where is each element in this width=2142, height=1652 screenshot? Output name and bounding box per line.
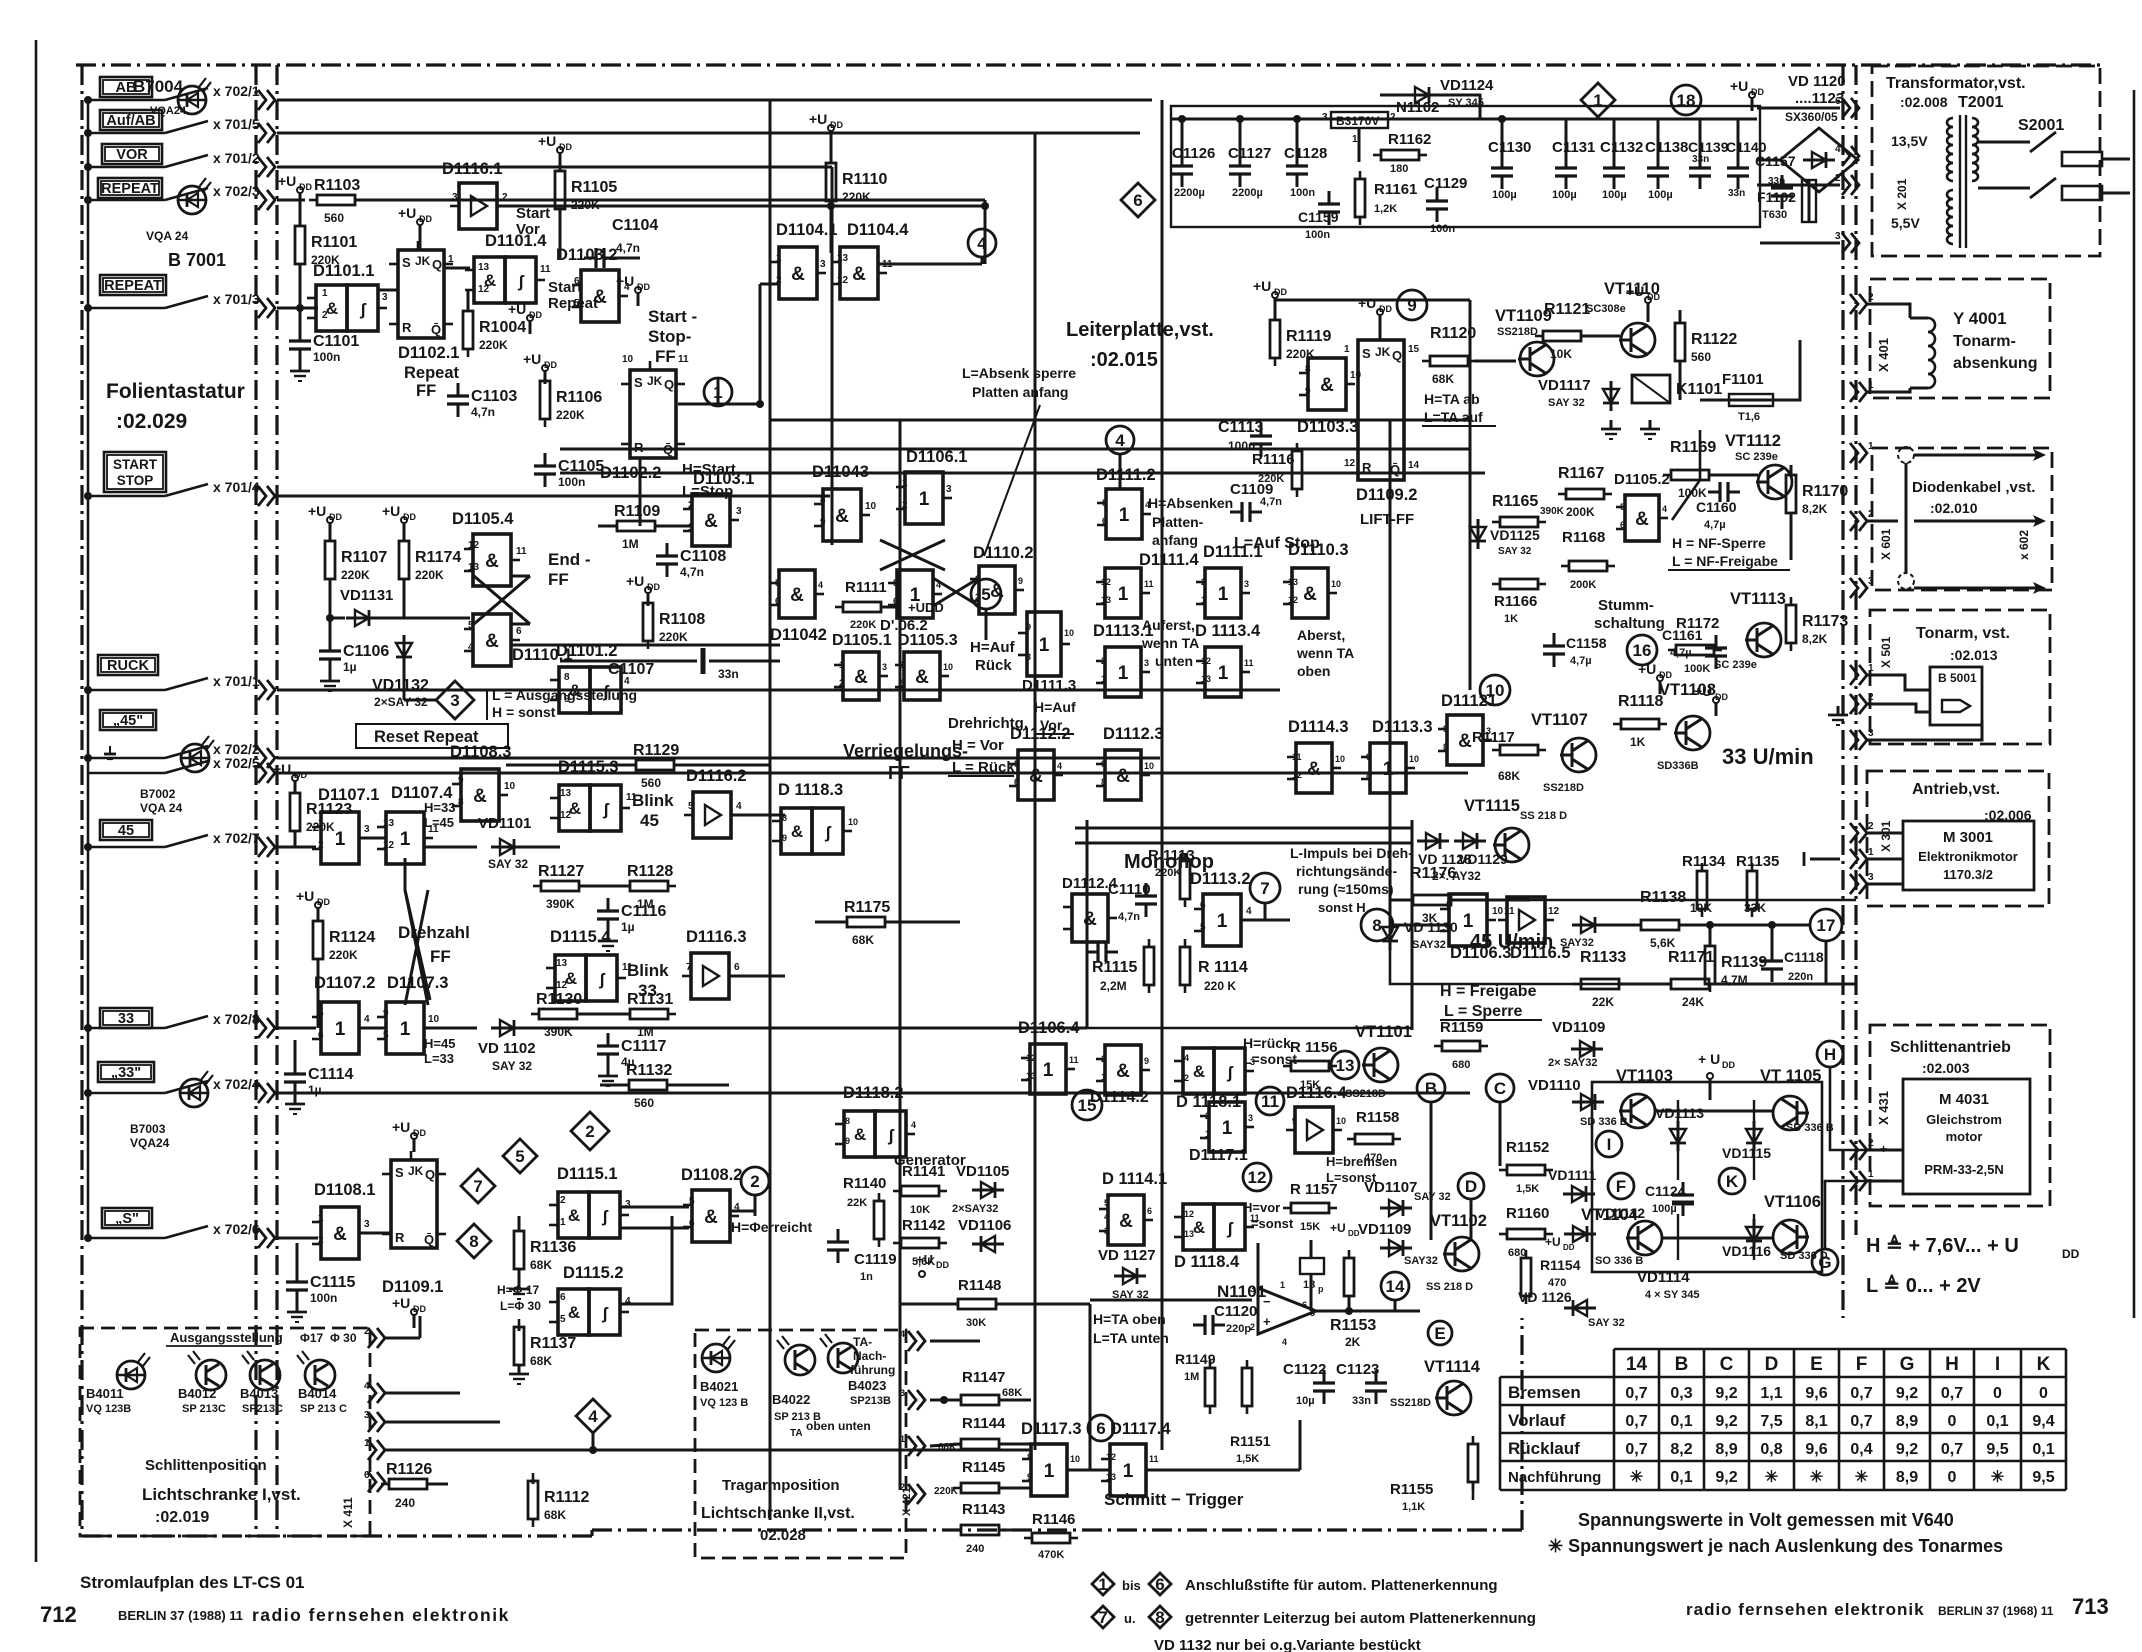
- svg-text:absenkung: absenkung: [1953, 355, 2037, 372]
- bus x702/8: [277, 1027, 316, 1030]
- svg-text:2: 2: [1201, 577, 1206, 587]
- X201 connector pins: [1842, 98, 1850, 118]
- svg-text:E: E: [1434, 1324, 1445, 1343]
- numbered node 12: [1243, 1163, 1271, 1191]
- PSU top rail: [1171, 118, 1757, 121]
- svg-text:1: 1: [318, 818, 324, 829]
- svg-text:1: 1: [322, 288, 328, 299]
- svg-text:F: F: [1616, 1177, 1626, 1196]
- numbered node 11: [1256, 1087, 1284, 1115]
- svg-text:H = sonst: H = sonst: [492, 704, 556, 720]
- svg-text:13: 13: [383, 818, 395, 829]
- svg-text:D1109.1: D1109.1: [382, 1278, 443, 1296]
- svg-text:&: &: [1307, 759, 1321, 780]
- svg-text:SP213C: SP213C: [242, 1403, 283, 1415]
- svg-text:VQA 24: VQA 24: [140, 801, 183, 815]
- svg-text:R1165: R1165: [1492, 493, 1538, 510]
- bus y=843: [1075, 842, 1412, 845]
- svg-text:2: 2: [1868, 292, 1874, 303]
- resistor R1106: [540, 381, 550, 419]
- svg-text:Drehzahl: Drehzahl: [398, 923, 470, 942]
- svg-text:18: 18: [1677, 91, 1696, 110]
- svg-text:200K: 200K: [1566, 505, 1595, 519]
- svg-text:5: 5: [468, 620, 474, 631]
- svg-text:1: 1: [1201, 595, 1206, 605]
- transformer T2001: [1947, 118, 1953, 127]
- svg-text:4: 4: [468, 642, 474, 653]
- wire blink row: [732, 814, 785, 817]
- cross wires D1106.1 to D1106.2: [880, 540, 945, 570]
- svg-text:&: &: [1320, 375, 1334, 396]
- svg-text:R1126: R1126: [386, 1461, 432, 1478]
- svg-text:x 702/5: x 702/5: [213, 755, 260, 771]
- svg-text:FF: FF: [416, 382, 436, 400]
- svg-text:sonst H: sonst H: [1318, 900, 1366, 915]
- vertical bus x=832: [831, 167, 834, 545]
- X601 pins: [1850, 443, 1858, 463]
- resistor R1172: [1676, 645, 1714, 655]
- bus x702/7: [277, 846, 316, 849]
- svg-text:R1111: R1111: [845, 579, 887, 596]
- resistor R1138: [1641, 920, 1679, 930]
- svg-text:220K: 220K: [341, 568, 370, 582]
- svg-text:D1102.1: D1102.1: [398, 344, 459, 362]
- svg-text::02.010: :02.010: [1930, 500, 1978, 516]
- svg-text:9,6: 9,6: [1805, 1441, 1827, 1458]
- svg-text:1170.3/2: 1170.3/2: [1943, 867, 1993, 882]
- svg-text:4: 4: [1246, 906, 1252, 917]
- svg-text:+U: +U: [1253, 278, 1271, 294]
- svg-text:5: 5: [893, 578, 898, 588]
- svg-text:8: 8: [900, 678, 905, 688]
- svg-text:VD1106: VD1106: [958, 1217, 1011, 1234]
- svg-text:+U: +U: [1730, 78, 1748, 94]
- svg-text:R1143: R1143: [962, 1501, 1005, 1518]
- svg-text:B3170V: B3170V: [1336, 114, 1379, 128]
- LED B7002: [181, 744, 209, 772]
- resistor R1143: [961, 1525, 999, 1535]
- svg-text:R1108: R1108: [659, 611, 705, 628]
- svg-text:x 702/7: x 702/7: [213, 830, 260, 846]
- svg-text:x 702/6: x 702/6: [213, 1221, 260, 1237]
- svg-text:+U: +U: [392, 1119, 410, 1135]
- svg-text:4: 4: [1184, 1053, 1189, 1063]
- svg-text:D1112.3: D1112.3: [1103, 725, 1164, 743]
- svg-text:+U: +U: [916, 1252, 933, 1267]
- svg-text:Stop-: Stop-: [648, 327, 691, 346]
- svg-text:6: 6: [364, 1470, 370, 1481]
- svg-text:12: 12: [1184, 1209, 1194, 1219]
- svg-text:führung: führung: [850, 1363, 895, 1377]
- svg-text:DD: DD: [1348, 1229, 1360, 1238]
- svg-text:1: 1: [335, 1019, 346, 1040]
- capacitor C1115: [296, 1269, 299, 1282]
- svg-text:Φ 30: Φ 30: [330, 1331, 357, 1345]
- key button 45: [100, 820, 152, 840]
- svg-text:7: 7: [1098, 1608, 1107, 1627]
- resistor R1111: [843, 602, 881, 612]
- svg-text:Q: Q: [432, 257, 442, 272]
- svg-text:1: 1: [448, 254, 454, 265]
- gate D1104.1: [779, 247, 817, 299]
- svg-text:getrennter Leiterzug bei autom: getrennter Leiterzug bei autom Plattener…: [1185, 1610, 1536, 1627]
- resistor R1122: [1675, 323, 1685, 361]
- svg-text:4,7n: 4,7n: [471, 405, 495, 419]
- gate D1104.4: [840, 247, 878, 299]
- gate2 D1115.3: [559, 785, 590, 831]
- svg-text:B7003: B7003: [130, 1122, 166, 1136]
- svg-text:1: 1: [1217, 911, 1228, 932]
- svg-text:X 431: X 431: [1876, 1091, 1891, 1125]
- svg-text:Schmitt − Trigger: Schmitt − Trigger: [1104, 1490, 1244, 1509]
- svg-text:E: E: [1810, 1354, 1823, 1375]
- resistor R1103: [317, 195, 355, 205]
- capacitor C1139: [1699, 155, 1702, 168]
- svg-text:VD 1132 nur bei o.g.Variante b: VD 1132 nur bei o.g.Variante bestückt: [1154, 1637, 1421, 1652]
- connector pin x 701/1: [258, 680, 266, 700]
- capacitor C1121: [1300, 1258, 1324, 1274]
- gate2 D1115.1: [558, 1192, 589, 1238]
- svg-text:C1118: C1118: [1784, 949, 1824, 965]
- svg-text:DD: DD: [1659, 670, 1672, 680]
- svg-text:7: 7: [686, 962, 692, 973]
- svg-text:S: S: [1362, 346, 1371, 361]
- svg-text:6: 6: [1014, 777, 1019, 787]
- resistor R1129: [636, 760, 674, 770]
- svg-text:VD 1126: VD 1126: [1518, 1289, 1572, 1305]
- connector pin X411/2: [368, 1328, 376, 1348]
- svg-text:K: K: [2037, 1354, 2051, 1375]
- capacitor C1128: [1296, 153, 1299, 166]
- gate D1108.1: [321, 1207, 359, 1259]
- svg-text:1µ: 1µ: [308, 1083, 322, 1097]
- buffer D1116.4: [1295, 1107, 1333, 1153]
- svg-text:13,5V: 13,5V: [1891, 133, 1928, 149]
- resistor R1162: [1381, 150, 1419, 160]
- svg-text:S: S: [402, 255, 411, 270]
- svg-text:R1144: R1144: [962, 1415, 1006, 1432]
- fuse F1101: [1729, 394, 1773, 406]
- capacitor C1101: [299, 328, 302, 341]
- svg-text:Transformator,vst.: Transformator,vst.: [1886, 75, 2026, 92]
- svg-text:12: 12: [556, 980, 568, 991]
- svg-text:Q̄: Q̄: [431, 322, 441, 337]
- svg-text:VD 1120: VD 1120: [1788, 73, 1846, 90]
- svg-text:B4022: B4022: [772, 1392, 810, 1407]
- label Reset Repeat: [356, 724, 508, 748]
- svg-text:390K: 390K: [546, 897, 575, 911]
- svg-text:D1115.3: D1115.3: [558, 758, 619, 776]
- connector pin X421/4: [908, 1331, 916, 1351]
- connector pin X421/1: [908, 1436, 916, 1456]
- svg-text:100µ: 100µ: [1552, 189, 1577, 201]
- svg-text:VT1115: VT1115: [1464, 797, 1520, 815]
- svg-text:33n: 33n: [1352, 1395, 1371, 1407]
- svg-text:R1107: R1107: [341, 549, 387, 566]
- bus x702/1: [277, 99, 1152, 102]
- svg-text:D1104.4: D1104.4: [847, 221, 909, 239]
- svg-text:DD: DD: [413, 1304, 426, 1314]
- resistor R1112: [528, 1481, 538, 1519]
- svg-text:1: 1: [1043, 1060, 1054, 1081]
- svg-text:10µ: 10µ: [1296, 1395, 1315, 1407]
- svg-text:FF: FF: [548, 570, 569, 589]
- switch wire to x 702/4: [88, 1092, 165, 1095]
- svg-text:I: I: [1607, 1135, 1612, 1154]
- gate D1114.1: [1108, 1195, 1144, 1245]
- svg-text:Q: Q: [1392, 348, 1402, 363]
- note diamonds 7 u 8: [1092, 1606, 1114, 1628]
- board border left (dash-dot): [80, 65, 83, 1536]
- board border bottom-left (dash-dot): [82, 1534, 592, 1537]
- svg-text:C1120: C1120: [1214, 1303, 1257, 1320]
- svg-text:+U: +U: [296, 888, 314, 904]
- connector pin x 702/7: [258, 837, 266, 857]
- svg-text:R1130: R1130: [536, 991, 582, 1008]
- svg-text:13: 13: [1101, 595, 1111, 605]
- svg-text:VD1124: VD1124: [1440, 77, 1494, 94]
- svg-text:1: 1: [902, 478, 908, 489]
- svg-text:X 401: X 401: [1876, 338, 1891, 372]
- svg-text:D1107.3: D1107.3: [387, 974, 448, 992]
- svg-text:VOR: VOR: [116, 147, 148, 163]
- svg-text:560: 560: [324, 211, 344, 225]
- wires schmitt: [1068, 1469, 1110, 1472]
- svg-text:D1111.4: D1111.4: [1139, 551, 1199, 569]
- svg-text:3: 3: [1868, 728, 1874, 739]
- svg-text:R: R: [1362, 460, 1372, 475]
- svg-text:VD1112: VD1112: [1596, 1205, 1645, 1221]
- svg-text:220n: 220n: [1788, 971, 1813, 983]
- svg-text:12: 12: [1101, 577, 1111, 587]
- svg-text:VD1132: VD1132: [372, 677, 429, 694]
- svg-text:220K: 220K: [479, 338, 508, 352]
- connector pin x 701/3: [258, 298, 266, 318]
- cross wires center: [933, 578, 979, 606]
- svg-text:12: 12: [1344, 458, 1356, 469]
- wire top logic row: [984, 200, 987, 206]
- svg-text:560: 560: [641, 776, 661, 790]
- capacitor C1127: [1239, 153, 1242, 166]
- svg-text:C1106: C1106: [343, 643, 389, 660]
- gate D1113.3: [1370, 743, 1406, 793]
- svg-text:4: 4: [1835, 144, 1841, 155]
- monoflop frame: [1087, 1027, 1412, 1030]
- svg-text:R1174: R1174: [415, 549, 461, 566]
- svg-text:17: 17: [1817, 916, 1836, 935]
- svg-text:D 1118.4: D 1118.4: [1174, 1253, 1240, 1271]
- svg-text:&: &: [593, 287, 607, 308]
- svg-text:JK: JK: [647, 374, 663, 388]
- svg-text:12: 12: [1201, 656, 1211, 666]
- svg-text:Tragarmposition: Tragarmposition: [722, 1477, 840, 1494]
- svg-text:1: 1: [919, 489, 930, 510]
- svg-text:1: 1: [1118, 584, 1129, 605]
- resistor R1119: [1272, 292, 1278, 298]
- svg-text:R1141: R1141: [902, 1163, 945, 1180]
- svg-text:D1117.1: D1117.1: [1189, 1147, 1248, 1164]
- svg-text:Nachführung: Nachführung: [1508, 1469, 1601, 1486]
- svg-text:1K: 1K: [1630, 735, 1646, 749]
- resistor R1169: [1671, 470, 1709, 480]
- svg-text:2200µ: 2200µ: [1232, 187, 1263, 199]
- switch wire to x 701/2: [88, 166, 165, 169]
- svg-text:+U: +U: [1330, 1221, 1346, 1235]
- svg-text:1: 1: [839, 660, 844, 670]
- connector pin x 702/3: [258, 190, 266, 210]
- svg-text:S2001: S2001: [2018, 117, 2064, 134]
- gate D1113.2: [1203, 894, 1241, 946]
- +UDD bottomleft: [411, 1309, 417, 1315]
- svg-text:G: G: [1818, 1253, 1831, 1272]
- svg-text:REPEAT: REPEAT: [104, 278, 162, 294]
- svg-text:100µ: 100µ: [1652, 1203, 1677, 1215]
- svg-text:33n: 33n: [1692, 154, 1709, 165]
- capacitor C1159: [1328, 191, 1331, 204]
- svg-text:560: 560: [634, 1096, 654, 1110]
- bus x702/2: [277, 757, 1160, 760]
- svg-text:100n: 100n: [1305, 229, 1330, 241]
- bus x702/6: [277, 1237, 318, 1240]
- svg-text:F1101: F1101: [1722, 371, 1764, 388]
- resistor R1142: [901, 1238, 939, 1248]
- svg-text:+U: +U: [523, 351, 541, 367]
- svg-text:D1118.2: D1118.2: [843, 1084, 904, 1102]
- diode VD1132: [403, 635, 406, 665]
- resistor R1139: [1705, 946, 1715, 984]
- svg-text:C1132: C1132: [1600, 139, 1643, 156]
- svg-text:R1110: R1110: [842, 171, 887, 188]
- svg-text:L=Absenk sperre: L=Absenk sperre: [962, 365, 1076, 381]
- diode VD1109 upper: [1571, 1048, 1603, 1051]
- capacitor C1104: [584, 257, 596, 260]
- svg-text:68K: 68K: [852, 933, 874, 947]
- svg-text:5: 5: [1104, 1198, 1109, 1208]
- svg-text::02.008: :02.008: [1900, 94, 1948, 110]
- capacitor C1131: [1565, 155, 1568, 168]
- vertical x=1260 opamp: [1257, 1243, 1260, 1300]
- gate D1113.4: [1205, 647, 1241, 697]
- gate D1114.2: [1105, 1045, 1141, 1095]
- svg-text:33n: 33n: [1728, 188, 1745, 199]
- svg-text:R1162: R1162: [1388, 131, 1431, 148]
- svg-text:Q: Q: [425, 1167, 435, 1182]
- svg-text:1K: 1K: [1504, 613, 1518, 625]
- svg-text:10: 10: [1064, 628, 1074, 638]
- svg-text:DD: DD: [830, 120, 843, 130]
- svg-text:SS218D: SS218D: [1345, 1088, 1386, 1100]
- svg-text:D1116.4: D1116.4: [1286, 1084, 1347, 1102]
- svg-text:C1114: C1114: [308, 1066, 353, 1083]
- svg-text:0,7: 0,7: [1625, 1413, 1647, 1430]
- motor M3001 box: [1903, 821, 2034, 890]
- svg-text:D1101.1: D1101.1: [313, 262, 374, 280]
- svg-text:D1105.4: D1105.4: [452, 510, 514, 528]
- svg-text:H: H: [1945, 1354, 1959, 1375]
- svg-text:D 1118.3: D 1118.3: [778, 781, 843, 799]
- svg-text:Rück: Rück: [975, 657, 1012, 674]
- svg-text:C1107: C1107: [608, 661, 654, 678]
- gate D1105.3: [904, 652, 940, 700]
- svg-text:3: 3: [1244, 579, 1249, 589]
- svg-text:R1145: R1145: [962, 1459, 1005, 1476]
- svg-text:8,9: 8,9: [1896, 1413, 1918, 1430]
- LED B4021: [702, 1344, 730, 1372]
- bus x701/4: [277, 495, 830, 498]
- svg-text:D1114.3: D1114.3: [1288, 718, 1349, 736]
- wire D1115.1 to D1108.2: [620, 1206, 689, 1209]
- svg-text:2200µ: 2200µ: [1174, 187, 1205, 199]
- phototransistor B4013: [250, 1360, 280, 1390]
- svg-text:oben: oben: [1297, 663, 1330, 679]
- svg-text:5: 5: [574, 298, 580, 309]
- svg-text:1,1K: 1,1K: [1402, 1501, 1425, 1513]
- svg-text:2,2M: 2,2M: [1100, 979, 1127, 993]
- PSU outline box: [1171, 106, 1760, 227]
- svg-text:9: 9: [1101, 759, 1106, 769]
- svg-text:R1131: R1131: [627, 991, 673, 1008]
- svg-text:8: 8: [564, 672, 570, 683]
- svg-text:H: H: [1824, 1045, 1836, 1064]
- svg-text:10: 10: [943, 662, 953, 672]
- svg-text:1: 1: [776, 253, 782, 264]
- svg-text:L = NF-Freigabe: L = NF-Freigabe: [1672, 553, 1778, 569]
- svg-text:R1133: R1133: [1580, 949, 1626, 966]
- capacitor C1129: [1436, 188, 1439, 201]
- wires lichtschranke II: [999, 1399, 1031, 1402]
- svg-text:H=Auf: H=Auf: [1034, 699, 1076, 715]
- svg-text:2K: 2K: [1345, 1335, 1361, 1349]
- wire LIFT row: [1275, 299, 1470, 302]
- svg-text:1M: 1M: [622, 537, 639, 551]
- svg-text:3: 3: [1868, 872, 1874, 883]
- svg-text:12: 12: [1288, 595, 1298, 605]
- svg-text:R1122: R1122: [1691, 331, 1737, 348]
- svg-text:„45": „45": [113, 713, 143, 729]
- svg-text:C: C: [1720, 1354, 1734, 1375]
- svg-text:FF: FF: [430, 947, 451, 966]
- svg-text:R1175: R1175: [844, 899, 890, 916]
- svg-text:0,1: 0,1: [2032, 1441, 2054, 1458]
- svg-text:End -: End -: [548, 550, 591, 569]
- svg-text:&: &: [1029, 766, 1043, 787]
- svg-text:&: &: [791, 264, 805, 285]
- numbered node 6 circle: [1088, 1415, 1114, 1441]
- svg-text:9: 9: [1018, 576, 1023, 586]
- svg-text:C1160: C1160: [1696, 499, 1737, 515]
- box Tonarm vst: [1870, 610, 2050, 744]
- diode VD1101: [491, 846, 523, 849]
- svg-text:C1101: C1101: [313, 333, 359, 350]
- wire y=1450 long: [640, 1449, 1031, 1452]
- LED B7003: [180, 1079, 208, 1107]
- svg-text:712: 712: [40, 1602, 77, 1627]
- gate D1103.2: [581, 270, 619, 322]
- svg-text:SC 239e: SC 239e: [1714, 659, 1757, 671]
- svg-text:4,7n: 4,7n: [616, 241, 640, 255]
- numbered node G: [1812, 1249, 1838, 1275]
- svg-text:B 5001: B 5001: [1938, 671, 1977, 685]
- svg-text:H=33: H=33: [424, 800, 455, 815]
- svg-text:13: 13: [1201, 674, 1211, 684]
- svg-text:220 K: 220 K: [1204, 979, 1236, 993]
- wire C1107 left: [560, 660, 640, 663]
- gate D1106.2: [897, 570, 933, 618]
- svg-text:4,7n: 4,7n: [680, 565, 704, 579]
- resistor R1132: [629, 1080, 667, 1090]
- svg-text:5: 5: [1014, 759, 1019, 769]
- numbered node I: [1596, 1131, 1622, 1157]
